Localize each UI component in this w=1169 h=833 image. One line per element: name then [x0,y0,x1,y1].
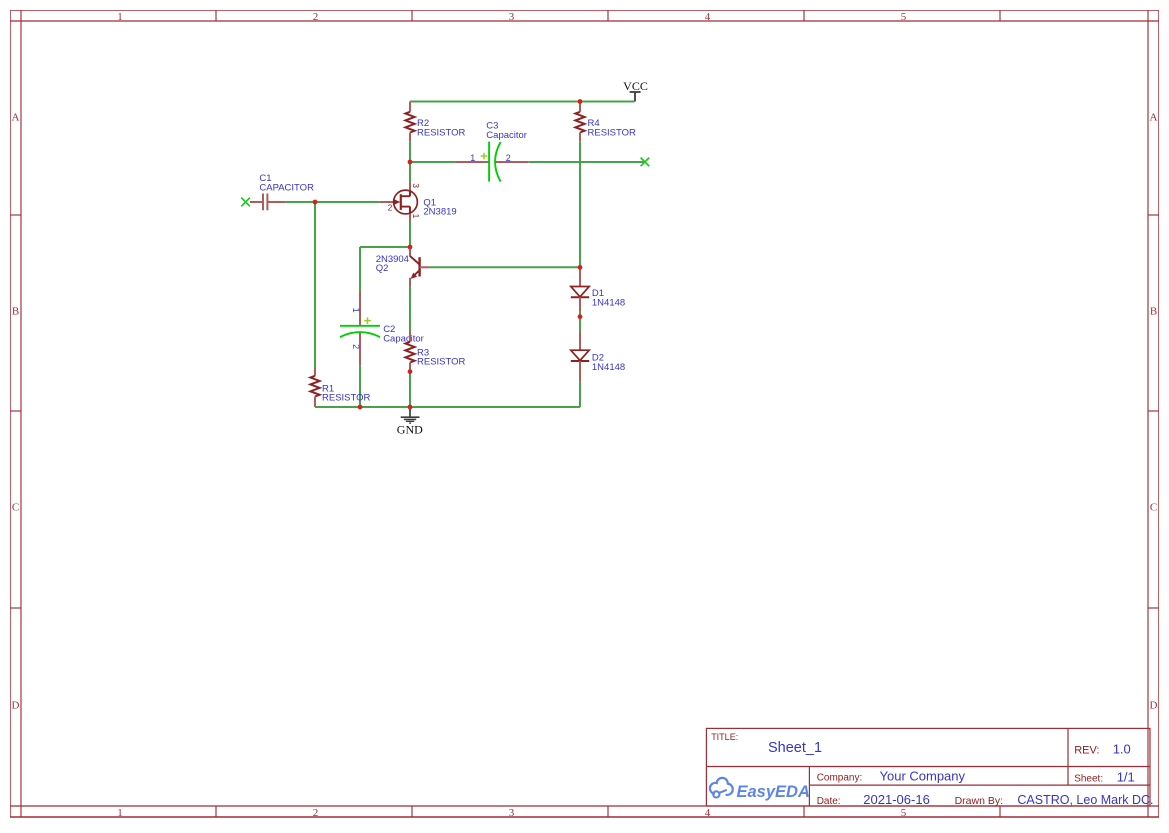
svg-text:EasyEDA: EasyEDA [737,783,810,801]
svg-text:1: 1 [117,11,123,23]
svg-text:RESISTOR: RESISTOR [588,127,637,138]
resistor R1 [310,367,319,407]
svg-text:C: C [1150,502,1157,514]
label Q1 [423,197,456,217]
svg-text:3: 3 [509,11,515,23]
svg-text:Q2: Q2 [376,263,389,274]
diode D2 [571,331,589,381]
svg-text:B: B [1150,306,1157,318]
ground GND [397,408,423,436]
svg-text:Capacitor: Capacitor [383,333,424,344]
svg-text:D: D [12,700,20,712]
svg-text:Company:: Company: [817,772,863,783]
pin numbers Q1 [388,183,422,218]
svg-text:1N4148: 1N4148 [592,297,625,308]
wire node B left [360,246,410,248]
capacitor C3 polarized [455,142,528,182]
svg-text:1N4148: 1N4148 [592,362,625,373]
svg-text:C: C [12,502,19,514]
resistor R3 [405,332,414,372]
svg-text:A: A [12,112,20,124]
wire D2 bottom to ground rail [579,381,581,407]
svg-text:1.0: 1.0 [1113,742,1131,757]
wire D1 D2 link [579,312,581,332]
wire Q1 drain up [409,162,411,182]
wire VCC top rail [410,101,635,103]
svg-text:2: 2 [313,807,319,819]
svg-text:Date:: Date: [817,796,841,807]
frame row letters left [12,112,20,712]
capacitor C2 polarized [340,292,380,366]
label R4 [588,118,637,138]
svg-text:B: B [12,306,19,318]
junction dots [313,99,583,409]
svg-text:GND: GND [397,422,423,436]
pin numbers C2 [351,308,361,350]
resistor R2 [405,102,414,142]
wire node to C3 pin1 [410,161,455,163]
frame column numbers bottom [117,807,907,819]
title block texts [711,732,1153,807]
label R3 [417,347,466,367]
wire node A down to R1 [314,202,316,367]
svg-text:2: 2 [388,203,393,213]
diode D1 [571,267,589,311]
wire Q1 source down [409,221,411,247]
wire C3 pin2 to X [528,161,645,163]
svg-text:1: 1 [117,807,123,819]
wire ground rail [315,406,580,408]
svg-text:4: 4 [705,11,711,23]
wire C1 to node A [285,201,315,203]
svg-text:1/1: 1/1 [1117,770,1135,785]
svg-text:Your Company: Your Company [880,768,966,783]
svg-text:CAPACITOR: CAPACITOR [259,182,314,193]
wire R4 bottom to base node [579,141,581,267]
label Q2 [376,254,409,274]
frame row letters right [1150,112,1158,712]
svg-text:1: 1 [411,214,421,219]
label C1 [259,173,314,193]
svg-text:2: 2 [313,11,319,23]
svg-text:3: 3 [411,183,421,188]
label D2 [592,353,625,373]
svg-text:2N3819: 2N3819 [423,207,456,218]
label C2 [383,324,424,344]
svg-text:4: 4 [705,807,711,819]
capacitor C1 [250,194,285,211]
svg-text:2021-06-16: 2021-06-16 [863,792,930,807]
frame column numbers top [117,11,907,23]
svg-text:1: 1 [351,308,361,313]
wire node B down to C2 [359,247,361,292]
svg-text:REV:: REV: [1074,745,1099,757]
label D1 [592,288,625,308]
svg-text:Sheet_1: Sheet_1 [768,740,822,756]
title block [706,728,1150,806]
svg-text:RESISTOR: RESISTOR [322,393,371,404]
wire node A to Q1 gate [315,201,380,203]
svg-text:3: 3 [509,807,515,819]
power flag VCC [623,79,648,102]
wire C2 bottom to ground rail [359,365,361,407]
pin numbers C3 [470,153,511,163]
svg-text:CASTRO, Leo Mark DC.: CASTRO, Leo Mark DC. [1017,793,1153,807]
wire Q2 emitter to R3 [409,286,411,331]
svg-text:2: 2 [351,344,361,349]
transistor Q2 NPN [410,247,430,286]
EasyEDA logo [710,778,810,801]
svg-text:VCC: VCC [623,79,648,93]
label R2 [417,118,466,138]
svg-text:Sheet:: Sheet: [1074,774,1103,785]
wire R2 bottom to node [409,141,411,162]
transistor Q1 JFET [380,182,418,221]
svg-text:TITLE:: TITLE: [711,732,738,742]
label C3 [486,121,527,141]
svg-text:5: 5 [901,11,907,23]
wire R3 bottom to ground node [409,372,411,407]
svg-text:D: D [1150,700,1158,712]
no-connect flag right [641,158,650,167]
label R1 [322,383,371,403]
svg-text:RESISTOR: RESISTOR [417,357,466,368]
svg-text:5: 5 [901,807,907,819]
wire Q2 base to D1 node [430,266,580,268]
svg-text:RESISTOR: RESISTOR [417,127,466,138]
svg-text:1: 1 [470,153,475,163]
svg-text:Drawn By:: Drawn By: [955,795,1003,807]
no-connect flag left [241,198,250,207]
svg-text:2: 2 [506,153,511,163]
resistor R4 [575,102,584,142]
svg-text:Capacitor: Capacitor [486,130,527,141]
svg-text:A: A [1150,112,1158,124]
